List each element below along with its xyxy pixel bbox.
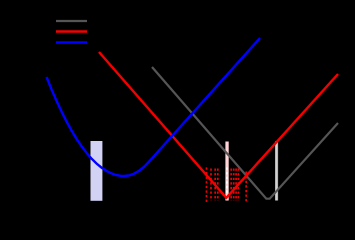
legend line gray: [56, 20, 87, 22]
band (midrange) lightgray: [275, 141, 278, 200]
legend line red: [56, 30, 87, 32]
band (median) pink: [225, 142, 228, 201]
legend line blue: [56, 41, 87, 43]
gray curve (max-deviation V): [152, 67, 338, 199]
red curve (absolute loss V): [99, 52, 338, 198]
midrange center line: [276, 141, 277, 200]
white dashed median line: [226, 168, 228, 201]
band (mean) lavender: [91, 141, 103, 201]
red dashed sample lines: [207, 167, 247, 202]
blue curve (quadratic loss): [47, 38, 261, 176]
